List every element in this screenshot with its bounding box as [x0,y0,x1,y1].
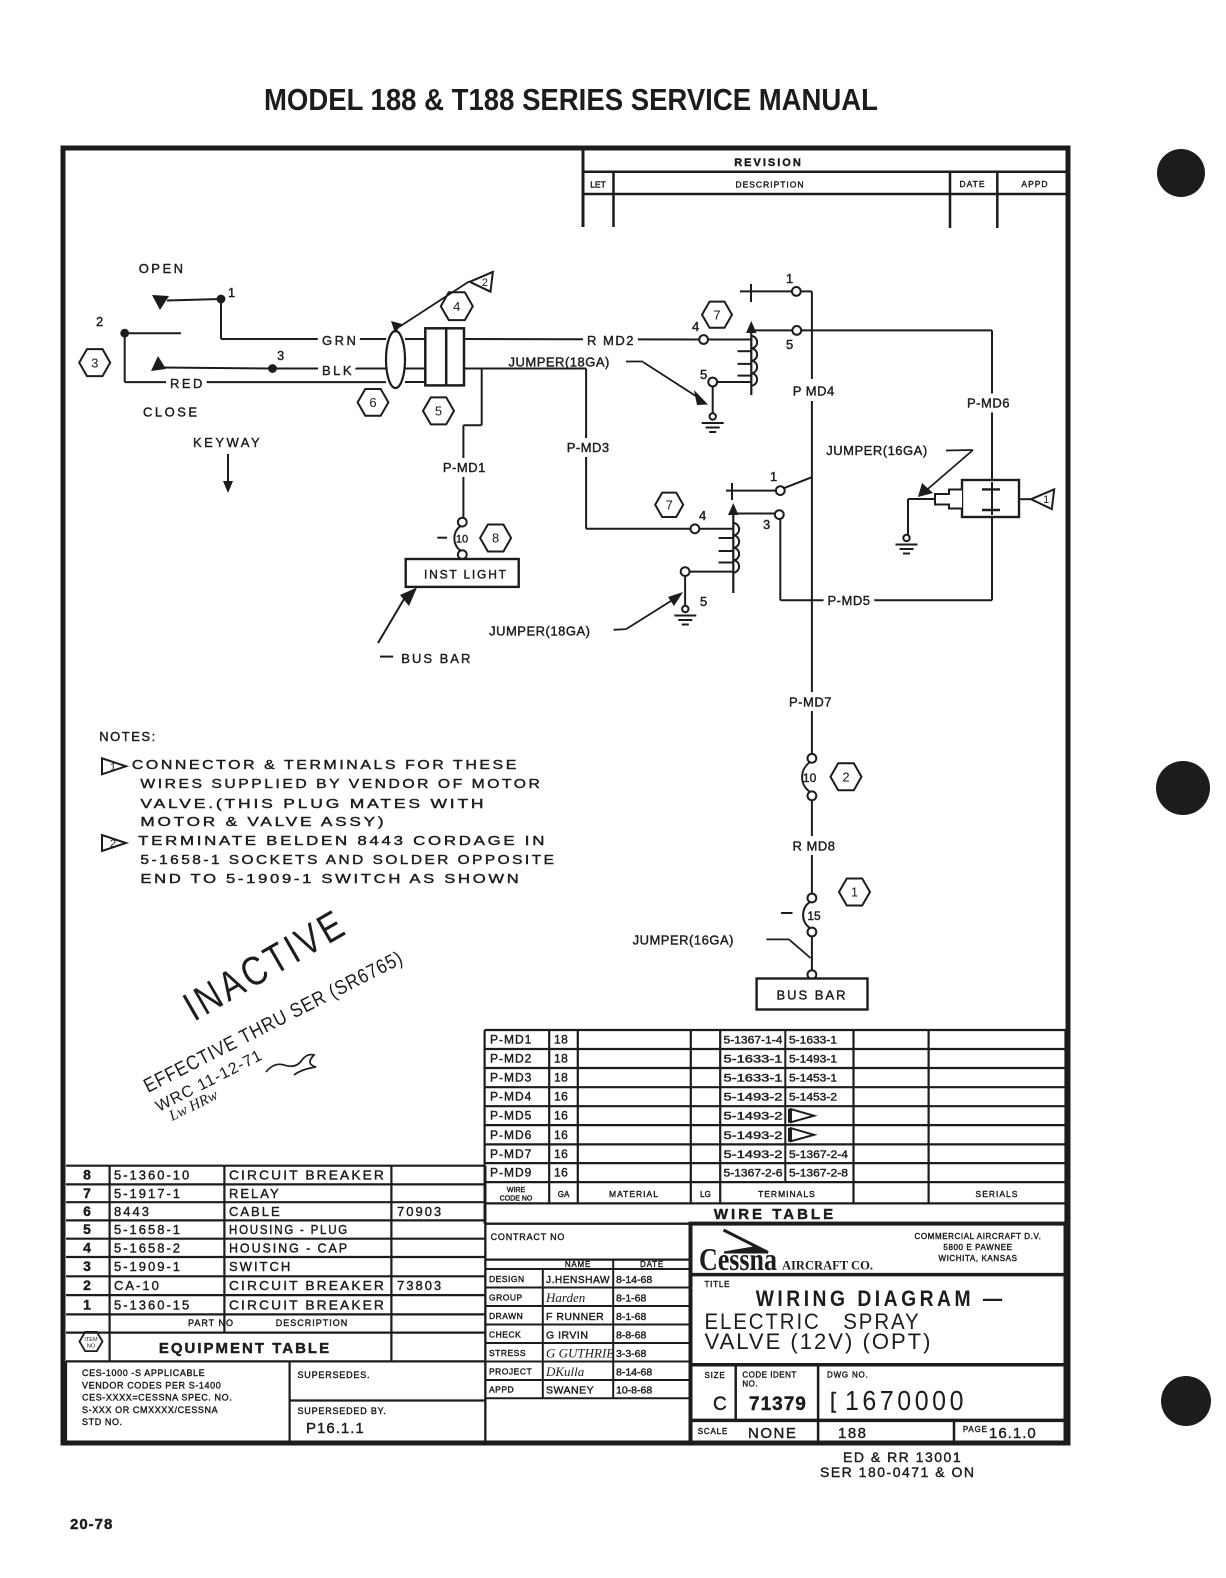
hexagon item 8 [480,525,511,552]
svg-text:GA: GA [558,1190,570,1199]
svg-text:1: 1 [1043,494,1049,506]
inst light box [406,559,519,587]
svg-text:5-1493-2: 5-1493-2 [724,1111,783,1123]
ground relay2 [674,606,696,625]
svg-text:P-MD5: P-MD5 [828,593,871,608]
svg-text:LG: LG [700,1190,711,1199]
svg-text:DESCRIPTION: DESCRIPTION [276,1318,349,1328]
svg-text:2: 2 [482,277,488,289]
svg-text:SWANEY: SWANEY [546,1385,594,1397]
svg-text:OPEN: OPEN [139,261,186,276]
svg-text:5-1493-2: 5-1493-2 [724,1092,783,1104]
size code dwg row [705,1365,968,1421]
binder hole dot bottom [1161,1376,1211,1426]
cessna logo [699,1230,1042,1277]
svg-text:F RUNNER: F RUNNER [546,1311,604,1323]
svg-text:SUPERSEDES.: SUPERSEDES. [298,1370,371,1380]
svg-text:2: 2 [842,770,849,785]
svg-text:4: 4 [83,1239,91,1255]
svg-text:5-1453-2: 5-1453-2 [789,1092,837,1104]
scale row [698,1420,1037,1443]
svg-text:END TO 5-1909-1 SWITCH AS SHOW: END TO 5-1909-1 SWITCH AS SHOWN [140,871,521,886]
svg-text:5-1493-1: 5-1493-1 [789,1054,837,1066]
note 2 triangle [102,835,126,851]
relay2 top contact [731,483,733,500]
svg-text:HOUSING - CAP: HOUSING - CAP [229,1240,349,1255]
svg-text:NO.: NO. [742,1380,758,1389]
svg-text:10-8-68: 10-8-68 [616,1385,652,1397]
hexagon item 1 [839,879,870,906]
svg-text:8443: 8443 [114,1204,151,1219]
svg-text:16: 16 [554,1166,568,1180]
svg-text:SCALE: SCALE [698,1427,728,1436]
svg-text:73803: 73803 [397,1278,443,1293]
svg-text:WIRE TABLE: WIRE TABLE [714,1206,836,1223]
svg-text:4: 4 [692,319,699,334]
svg-text:TERMINATE BELDEN 8443 CORDAGE: TERMINATE BELDEN 8443 CORDAGE IN [138,833,547,848]
svg-text:5-1658-1: 5-1658-1 [114,1222,182,1237]
svg-text:5-1453-1: 5-1453-1 [789,1073,837,1085]
svg-text:DATE: DATE [640,1260,664,1269]
svg-text:NOTES:: NOTES: [99,729,156,744]
svg-text:70903: 70903 [397,1204,443,1219]
svg-text:4: 4 [453,299,460,314]
svg-text:1: 1 [83,1296,91,1312]
svg-text:8-1-68: 8-1-68 [616,1311,647,1323]
svg-text:RED: RED [170,376,205,391]
equipment table [66,1166,485,1362]
svg-text:COMMERCIAL AIRCRAFT D.V.: COMMERCIAL AIRCRAFT D.V. [914,1232,1041,1241]
svg-text:1: 1 [770,469,777,484]
switch terminal 2 [120,329,129,338]
svg-text:VALVE (12V) (OPT): VALVE (12V) (OPT) [705,1329,933,1354]
svg-text:WIRE: WIRE [507,1187,526,1194]
breaker terminal [808,791,817,800]
handwritten serial note [820,1449,975,1480]
svg-text:CES-XXXX=CESSNA SPEC. NO.: CES-XXXX=CESSNA SPEC. NO. [82,1393,232,1403]
svg-text:CIRCUIT BREAKER: CIRCUIT BREAKER [229,1278,386,1293]
motor plug [935,490,962,509]
relay1 terminal 5 [792,326,801,335]
svg-text:16: 16 [554,1147,568,1161]
svg-text:P-MD6: P-MD6 [967,396,1010,411]
svg-text:APPD: APPD [1021,179,1048,189]
svg-text:CODE IDENT: CODE IDENT [742,1371,796,1380]
svg-text:15: 15 [807,909,821,923]
svg-text:JUMPER(16GA): JUMPER(16GA) [826,443,927,458]
svg-text:18: 18 [554,1052,568,1066]
svg-text:8: 8 [492,531,499,546]
hexagon item 5 [423,397,454,424]
switch blade terminal 1 [167,299,221,301]
svg-text:P-MD3: P-MD3 [490,1071,532,1085]
svg-text:P-MD1: P-MD1 [490,1033,532,1047]
svg-text:5-1493-2: 5-1493-2 [724,1149,783,1161]
revision table [583,150,1066,228]
svg-text:G GUTHRIE: G GUTHRIE [546,1345,614,1360]
note 1 text [132,757,543,829]
wires through connector [405,338,425,340]
svg-text:CIRCUIT BREAKER: CIRCUIT BREAKER [229,1297,386,1312]
binder hole dot top [1157,149,1205,197]
hexagon item 7 relay2 [655,493,683,517]
relay2 terminal 5 [681,567,690,576]
wire P-MD3 [464,368,586,370]
title block frame [691,1224,1066,1443]
svg-text:CES-1000 -S APPLICABLE: CES-1000 -S APPLICABLE [82,1368,205,1378]
svg-text:P-MD7: P-MD7 [490,1147,532,1161]
svg-text:71379: 71379 [749,1394,807,1415]
svg-text:5: 5 [83,1221,91,1237]
svg-text:16: 16 [554,1128,568,1142]
breaker terminal [458,550,467,559]
svg-text:5-1633-1: 5-1633-1 [724,1073,783,1085]
cable 8443 sleeve [386,331,405,388]
svg-text:NAME: NAME [565,1260,591,1269]
inactive stamp [140,900,407,1125]
svg-text:STD NO.: STD NO. [82,1417,123,1427]
svg-text:[: [ [830,1388,836,1413]
svg-text:7: 7 [666,498,673,513]
svg-text:SUPERSEDED BY.: SUPERSEDED BY. [298,1406,387,1416]
svg-text:AIRCRAFT CO.: AIRCRAFT CO. [782,1259,873,1273]
svg-text:2: 2 [110,838,116,850]
svg-text:5: 5 [435,404,442,419]
svg-text:P MD4: P MD4 [793,384,835,399]
svg-text:Cessna: Cessna [699,1241,777,1277]
svg-text:3: 3 [763,517,770,532]
svg-text:WICHITA, KANSAS: WICHITA, KANSAS [938,1254,1017,1263]
svg-text:JUMPER(16GA): JUMPER(16GA) [633,933,734,948]
relay1 terminal 4 [699,335,708,344]
relay2 terminal 4 [691,524,700,533]
relay2 terminal 3 [775,510,784,519]
svg-text:BUS BAR: BUS BAR [401,651,472,666]
hexagon item 4 [441,292,473,320]
svg-text:8-8-68: 8-8-68 [616,1329,647,1341]
wire RED from switch terminal 2 [124,333,126,382]
svg-text:P-MD7: P-MD7 [789,695,832,710]
ground relay1 [702,413,724,432]
svg-text:1670000: 1670000 [845,1385,967,1416]
svg-text:WIRES SUPPLIED BY VENDOR OF MO: WIRES SUPPLIED BY VENDOR OF MOTOR [140,776,542,791]
svg-text:ITEM: ITEM [84,1337,98,1343]
ces notes box [66,1361,485,1441]
svg-text:J.HENSHAW: J.HENSHAW [546,1274,610,1286]
svg-text:5-1493-2: 5-1493-2 [724,1130,783,1142]
svg-text:LET: LET [590,180,606,190]
callout arrow to cable with note triangle 2 [399,282,469,328]
svg-text:2: 2 [83,1277,91,1293]
relay1 terminal 5 lower [708,378,717,387]
svg-text:CA-10: CA-10 [114,1278,161,1293]
svg-text:SWITCH: SWITCH [229,1259,292,1274]
svg-text:8-14-68: 8-14-68 [616,1274,652,1286]
item no hexagon [80,1332,103,1351]
wire GRN from switch terminal 1 [220,299,222,339]
switch terminal 3 [268,364,277,373]
wire table [485,1030,1066,1224]
svg-text:CODE NO: CODE NO [500,1195,533,1202]
note triangle 1 flag motor [1031,489,1054,509]
note 1 triangle [102,758,126,774]
wire BLK from switch terminal 3 [273,368,387,370]
relay2 coil [733,523,739,573]
svg-text:CABLE: CABLE [229,1204,282,1219]
svg-text:R MD8: R MD8 [793,839,836,854]
svg-text:20-78: 20-78 [70,1516,113,1533]
svg-text:DATE: DATE [959,179,985,189]
svg-text:CONNECTOR & TERMINALS FOR THES: CONNECTOR & TERMINALS FOR THESE [132,757,519,772]
svg-text:INST LIGHT: INST LIGHT [424,568,508,582]
breaker terminal [808,754,817,763]
svg-text:P-MD3: P-MD3 [567,440,610,455]
relay2 terminal 1 [776,486,785,495]
wire P-MD6 [991,330,993,480]
svg-text:10: 10 [456,534,468,546]
svg-text:P-MD4: P-MD4 [490,1090,532,1104]
svg-text:DRAWN: DRAWN [489,1311,523,1321]
svg-text:5-1658-1 SOCKETS AND SOLDER OP: 5-1658-1 SOCKETS AND SOLDER OPPOSITE [140,852,556,867]
wire P-MD1 [481,370,483,426]
svg-text:Harden: Harden [545,1290,585,1305]
svg-text:DKulla: DKulla [545,1364,585,1379]
breaker terminal [808,928,817,937]
relay1 armature [746,321,757,333]
svg-text:5-1633-1: 5-1633-1 [724,1054,783,1066]
svg-text:10: 10 [803,771,817,785]
breaker terminal [458,518,467,527]
note triangle 2 flag [470,272,493,292]
svg-text:3: 3 [277,348,284,363]
relay1 terminal 1 [792,287,801,296]
svg-text:VALVE.(THIS PLUG MATES WITH: VALVE.(THIS PLUG MATES WITH [140,796,486,811]
wire P-MD5 from relay2 terminal 3 [779,519,781,600]
svg-text:6: 6 [369,395,376,410]
svg-text:JUMPER(18GA): JUMPER(18GA) [489,624,590,639]
svg-text:S-XXX OR CMXXXX/CESSNA: S-XXX OR CMXXXX/CESSNA [82,1405,218,1415]
design table [485,1224,690,1441]
hexagon item 7 relay1 [702,302,732,328]
note triangle in wire table [789,1128,814,1142]
svg-text:6: 6 [83,1203,91,1219]
bus bar callout arrow [378,594,407,643]
switch blade terminal 3 [151,356,166,371]
svg-text:EQUIPMENT TABLE: EQUIPMENT TABLE [159,1340,331,1357]
housing plug and cap [425,328,464,385]
switch terminal 1 [217,295,226,304]
svg-text:C: C [713,1394,727,1415]
note triangle 1 (motor) [1019,498,1031,500]
svg-text:PROJECT: PROJECT [489,1366,532,1376]
hexagon item 2 [831,763,862,790]
svg-text:5-1360-15: 5-1360-15 [114,1297,191,1312]
svg-text:5-1658-2: 5-1658-2 [114,1240,182,1255]
svg-text:5: 5 [700,594,707,609]
relay1 coil [751,336,757,386]
svg-text:16: 16 [554,1090,568,1104]
title text [705,1280,1006,1354]
svg-text:CIRCUIT BREAKER: CIRCUIT BREAKER [229,1168,386,1183]
svg-text:MOTOR & VALVE ASSY): MOTOR & VALVE ASSY) [140,814,386,829]
svg-text:PART NO: PART NO [188,1318,234,1328]
motor valve connector [991,517,993,600]
svg-text:CONTRACT NO: CONTRACT NO [491,1232,566,1242]
svg-text:3-3-68: 3-3-68 [616,1348,647,1360]
svg-text:VENDOR CODES PER S-1400: VENDOR CODES PER S-1400 [82,1380,221,1390]
main border frame [63,148,1068,1443]
svg-text:HOUSING - PLUG: HOUSING - PLUG [229,1222,349,1237]
hexagon item 6 [358,389,389,416]
svg-text:MODEL 188 & T188 SERIES SERVIC: MODEL 188 & T188 SERIES SERVICE MANUAL [264,82,878,117]
svg-text:2: 2 [96,314,103,329]
svg-text:P-MD5: P-MD5 [490,1109,532,1123]
svg-text:5-1367-2-4: 5-1367-2-4 [789,1149,848,1161]
svg-text:DESIGN: DESIGN [489,1274,525,1284]
svg-text:SIZE: SIZE [705,1371,726,1380]
svg-text:P-MD2: P-MD2 [490,1052,532,1066]
wire vertical bus from relay1 to bus bar [811,291,813,379]
svg-text:7: 7 [83,1185,91,1201]
relay2 armature [728,503,739,515]
svg-text:5: 5 [700,367,707,382]
svg-text:DWG NO.: DWG NO. [827,1371,869,1380]
svg-text:1: 1 [851,885,858,900]
svg-text:WIRING DIAGRAM —: WIRING DIAGRAM — [756,1286,1006,1311]
svg-text:APPD: APPD [489,1385,514,1395]
hexagon item 3 switch [79,349,110,376]
svg-text:SERIALS: SERIALS [976,1189,1019,1199]
svg-text:4: 4 [699,508,706,523]
svg-text:5-1367-2-8: 5-1367-2-8 [789,1168,848,1180]
svg-text:16: 16 [554,1109,568,1123]
svg-text:5-1367-1-4: 5-1367-1-4 [724,1035,783,1047]
binder hole dot middle [1156,761,1210,815]
svg-text:18: 18 [554,1071,568,1085]
svg-text:RELAY: RELAY [229,1186,281,1201]
svg-text:5-1633-1: 5-1633-1 [789,1035,837,1047]
svg-text:1: 1 [228,285,235,300]
bus bar terminal [808,970,817,979]
svg-text:SER 180-0471 & ON: SER 180-0471 & ON [820,1464,975,1480]
svg-text:1: 1 [110,761,116,773]
svg-text:G IRVIN: G IRVIN [546,1329,588,1341]
relay K1 top contact [750,284,752,302]
svg-text:KEYWAY: KEYWAY [193,435,262,450]
svg-text:TERMINALS: TERMINALS [758,1189,816,1199]
contract no box [485,1224,690,1260]
svg-text:DESCRIPTION: DESCRIPTION [735,180,804,190]
svg-text:GRN: GRN [322,333,358,348]
svg-text:5-1917-1: 5-1917-1 [114,1186,182,1201]
svg-text:8: 8 [83,1167,91,1183]
svg-text:P-MD9: P-MD9 [490,1166,532,1180]
svg-text:5: 5 [786,337,793,352]
svg-text:JUMPER(18GA): JUMPER(18GA) [509,355,610,370]
svg-text:P-MD1: P-MD1 [443,460,486,475]
svg-text:CHECK: CHECK [489,1329,521,1339]
svg-text:18: 18 [554,1033,568,1047]
svg-text:GROUP: GROUP [489,1292,523,1302]
relay1 terminal 5 top wire to P-MD6 [753,329,792,331]
svg-text:8-14-68: 8-14-68 [616,1366,652,1378]
svg-text:188: 188 [838,1425,868,1442]
svg-text:NO: NO [87,1344,96,1350]
svg-text:ED & RR 13001: ED & RR 13001 [843,1449,962,1465]
svg-text:PAGE: PAGE [963,1425,988,1434]
svg-text:7: 7 [713,307,720,322]
svg-text:BUS BAR: BUS BAR [776,988,847,1003]
svg-text:STRESS: STRESS [489,1348,526,1358]
ground motor [896,535,918,554]
svg-text:8-1-68: 8-1-68 [616,1292,647,1304]
svg-text:R MD2: R MD2 [587,333,635,348]
svg-text:16.1.0: 16.1.0 [989,1425,1037,1442]
svg-text:NONE: NONE [748,1425,797,1442]
svg-text:TITLE: TITLE [705,1280,731,1289]
svg-text:3: 3 [91,355,98,370]
svg-text:REVISION: REVISION [734,157,803,169]
svg-text:5-1360-10: 5-1360-10 [114,1168,191,1183]
svg-text:MATERIAL: MATERIAL [609,1189,659,1199]
svg-text:P-MD6: P-MD6 [490,1128,532,1142]
keyway arrow [227,454,229,483]
note 2 text [138,833,556,886]
svg-text:5-1909-1: 5-1909-1 [114,1259,182,1274]
svg-text:P16.1.1: P16.1.1 [306,1420,365,1437]
svg-text:3: 3 [83,1258,91,1274]
breaker terminal [808,894,817,903]
svg-text:1: 1 [786,271,793,286]
svg-text:BLK: BLK [322,363,354,378]
note triangle in wire table [789,1109,814,1123]
wire R MD2 [464,338,699,341]
svg-text:5-1367-2-6: 5-1367-2-6 [724,1168,783,1180]
svg-text:5800 E PAWNEE: 5800 E PAWNEE [943,1243,1012,1252]
svg-text:CLOSE: CLOSE [143,404,200,419]
